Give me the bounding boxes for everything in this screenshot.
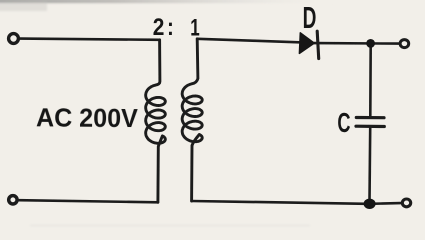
svg-text:1: 1: [190, 14, 200, 41]
svg-text:AC 200V: AC 200V: [36, 104, 138, 133]
svg-text:2: 2: [153, 13, 165, 41]
svg-text:D: D: [303, 1, 317, 35]
svg-text::: :: [167, 13, 174, 40]
svg-text:C: C: [337, 108, 350, 139]
